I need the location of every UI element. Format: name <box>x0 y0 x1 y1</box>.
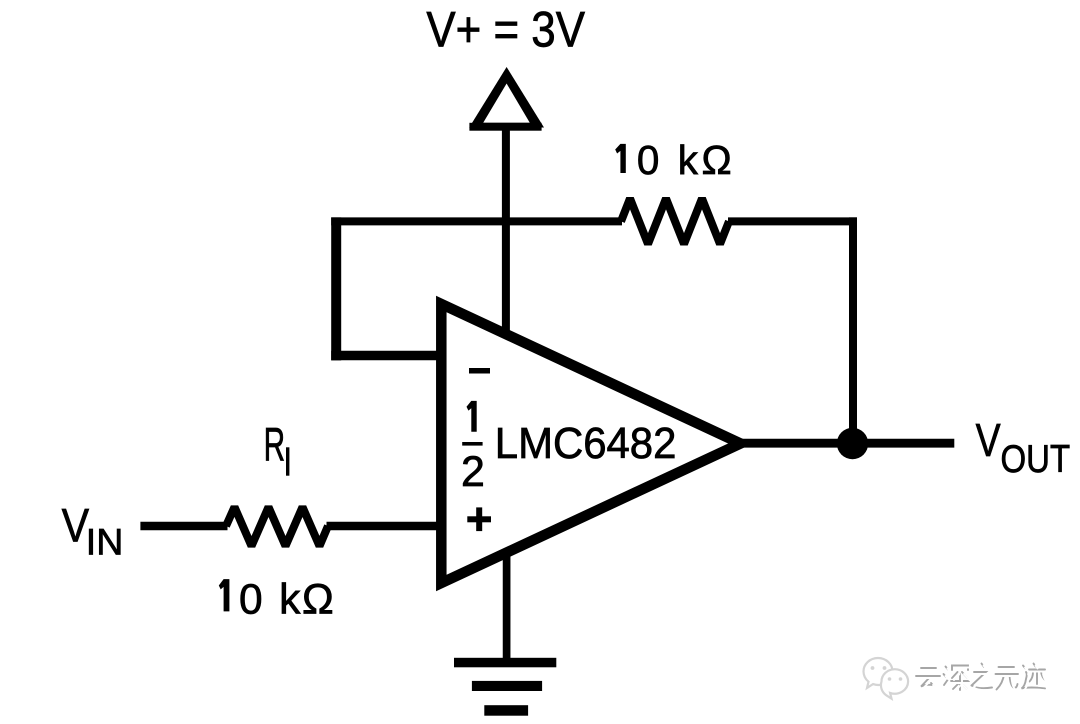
svg-text:Ω: Ω <box>302 576 334 623</box>
svg-text:V: V <box>976 414 1001 466</box>
svg-text:k: k <box>279 576 301 623</box>
svg-text:k: k <box>678 137 699 183</box>
svg-text:LMC6482: LMC6482 <box>495 419 677 468</box>
svg-text:0: 0 <box>239 576 263 623</box>
svg-text:2: 2 <box>461 448 485 496</box>
svg-text:R: R <box>264 419 286 472</box>
svg-text:V+ = 3V: V+ = 3V <box>426 1 585 57</box>
svg-text:IN: IN <box>86 522 124 563</box>
svg-text:OUT: OUT <box>1001 438 1071 481</box>
svg-text:Ω: Ω <box>702 137 732 183</box>
svg-text:0: 0 <box>637 137 659 183</box>
